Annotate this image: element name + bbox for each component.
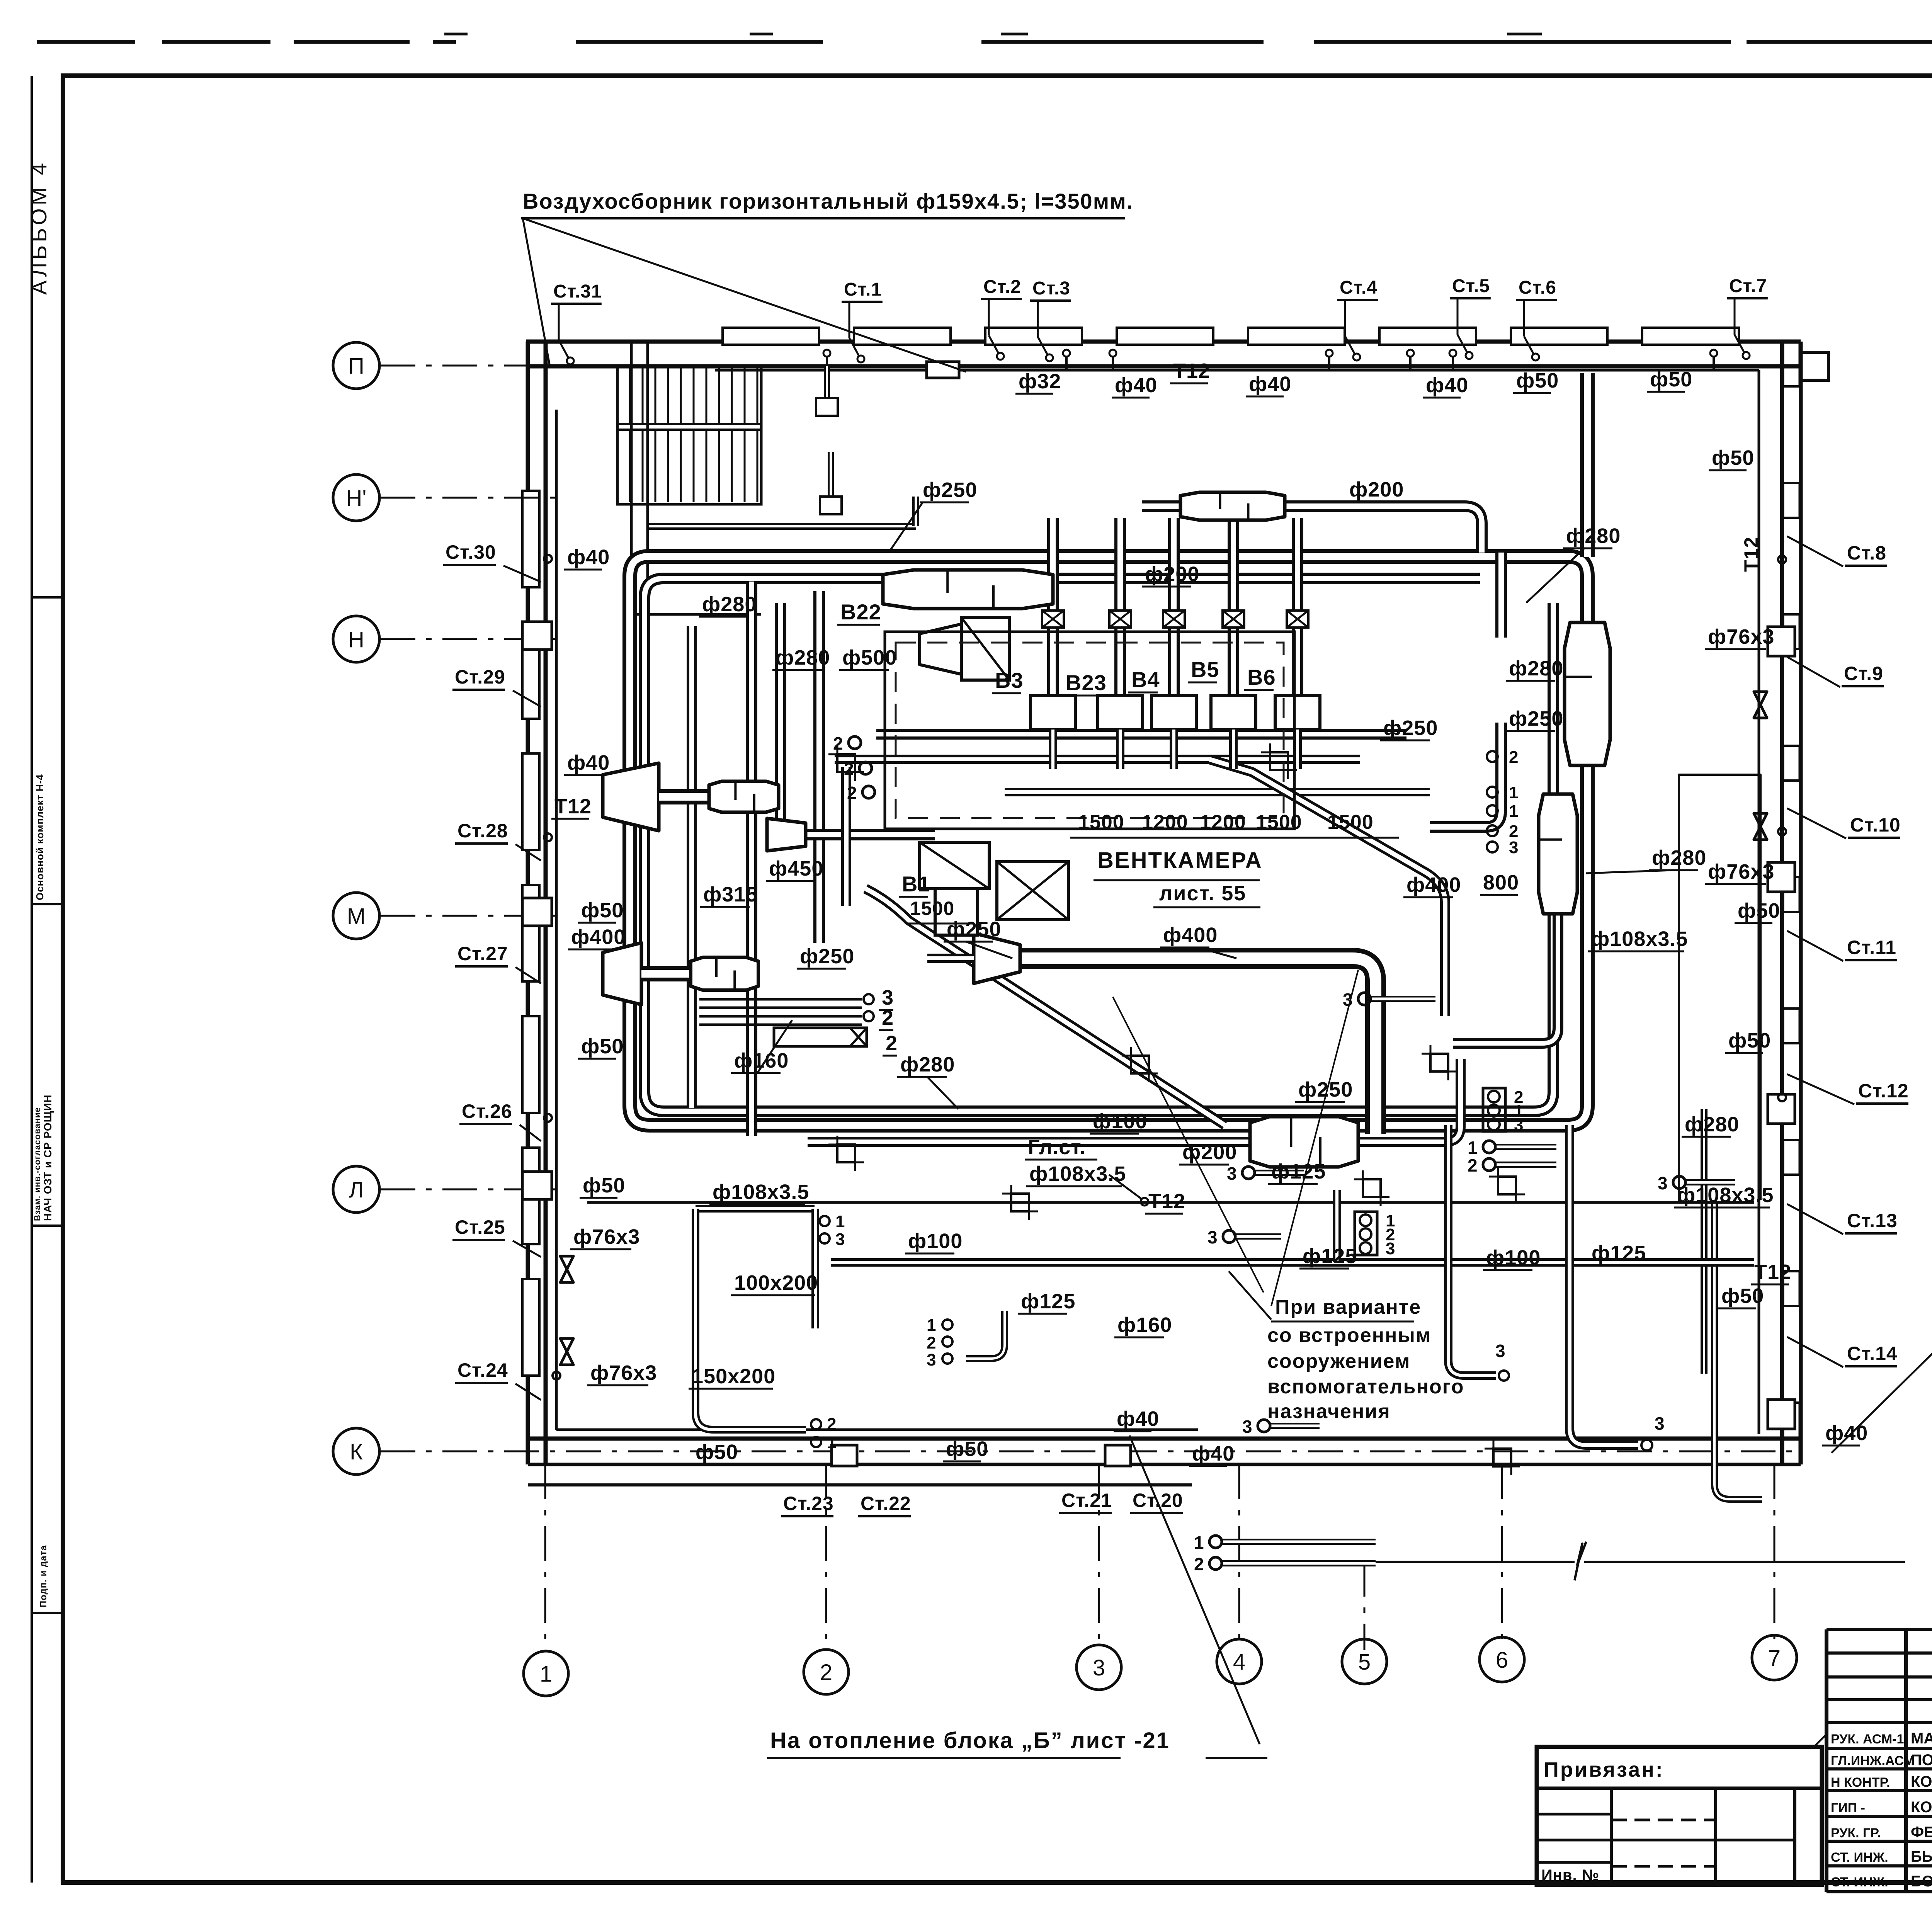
svg-text:ф50: ф50 (581, 1035, 624, 1058)
svg-text:ф76х3: ф76х3 (1708, 860, 1774, 883)
svg-text:1200: 1200 (1142, 811, 1188, 833)
duct (1049, 730, 1057, 769)
svg-text:ф76х3: ф76х3 (590, 1361, 657, 1384)
duct (1553, 796, 1563, 912)
svg-text:В5: В5 (1191, 657, 1219, 682)
duct (808, 1137, 1252, 1147)
svg-text:ф250: ф250 (947, 918, 1001, 941)
silencer (709, 781, 779, 812)
duct (1333, 1190, 1341, 1262)
duct (866, 889, 1225, 1125)
svg-text:Ст.23: Ст.23 (783, 1493, 834, 1514)
svg-text:Привязан:: Привязан: (1544, 1758, 1664, 1781)
svg-text:Ст.2: Ст.2 (983, 277, 1021, 297)
svg-text:Ст.22: Ст.22 (861, 1493, 911, 1514)
svg-text:1: 1 (540, 1662, 552, 1687)
duct (1430, 723, 1501, 827)
svg-text:ф280: ф280 (776, 646, 830, 669)
svg-text:Ст.5: Ст.5 (1452, 276, 1490, 296)
svg-text:РУК. ГР.: РУК. ГР. (1831, 1826, 1881, 1840)
svg-text:ф100: ф100 (1093, 1110, 1147, 1133)
svg-text:3: 3 (1514, 1116, 1524, 1134)
stairwell hatch (617, 367, 761, 504)
svg-text:1: 1 (1468, 1138, 1478, 1158)
svg-text:ф400: ф400 (1163, 923, 1218, 947)
duct (876, 729, 1406, 740)
svg-text:ф50: ф50 (1650, 368, 1692, 391)
duct (806, 829, 935, 840)
duct (1229, 730, 1238, 769)
svg-text:3: 3 (1495, 1341, 1506, 1361)
svg-text:3: 3 (1207, 1227, 1218, 1247)
svg-text:В6: В6 (1247, 665, 1276, 689)
duct (1480, 556, 1587, 625)
duct (1209, 759, 1445, 1016)
duct (696, 1209, 806, 1430)
svg-text:ф280: ф280 (1509, 657, 1563, 680)
duct (1292, 518, 1303, 696)
svg-text:ф250: ф250 (1383, 716, 1438, 740)
pipe stub (1685, 1179, 1735, 1185)
svg-text:Ст.14: Ст.14 (1847, 1343, 1898, 1364)
svg-text:ф160: ф160 (1117, 1313, 1172, 1337)
svg-text:ф280: ф280 (900, 1053, 955, 1076)
pipe stub (1370, 996, 1435, 1002)
svg-text:ГЛ.ИНЖ.АСМ: ГЛ.ИНЖ.АСМ (1831, 1753, 1915, 1768)
svg-text:3: 3 (1386, 1239, 1396, 1258)
axis circle 1 (524, 1651, 568, 1696)
duct (1142, 506, 1482, 553)
svg-text:Взам. инв.-согласование: Взам. инв.-согласование (32, 1107, 42, 1221)
svg-text:Т12: Т12 (1754, 1260, 1791, 1284)
svg-text:3: 3 (835, 1230, 845, 1249)
svg-text:3: 3 (1655, 1413, 1665, 1434)
duct (645, 578, 1553, 1111)
svg-text:2: 2 (882, 1006, 894, 1029)
svg-text:2: 2 (927, 1333, 937, 1352)
duct (775, 603, 786, 819)
svg-text:МАТОЯН: МАТОЯН (1911, 1730, 1932, 1747)
svg-text:ВЕНТКАМЕРА: ВЕНТКАМЕРА (1097, 848, 1263, 873)
column grid marker (837, 754, 855, 772)
column grid marker (1011, 1194, 1029, 1211)
svg-text:К: К (350, 1439, 363, 1464)
svg-text:П: П (348, 354, 364, 379)
silencer (691, 957, 759, 990)
svg-text:В1: В1 (902, 872, 930, 896)
svg-text:ф125: ф125 (1021, 1290, 1075, 1313)
svg-text:ф100: ф100 (1486, 1246, 1541, 1269)
svg-text:ф400: ф400 (571, 925, 626, 949)
duct (811, 1209, 819, 1328)
svg-text:ф40: ф40 (1192, 1442, 1235, 1465)
svg-text:2: 2 (1509, 748, 1519, 767)
duct (746, 582, 757, 1136)
duct (649, 523, 916, 530)
svg-text:БЫЧКОВА: БЫЧКОВА (1911, 1848, 1932, 1865)
svg-text:РУК. АСМ-1: РУК. АСМ-1 (1831, 1732, 1904, 1747)
pipe stub (1495, 1162, 1556, 1168)
svg-text:1: 1 (1509, 802, 1519, 821)
axis circle 3 (1077, 1645, 1121, 1690)
svg-text:Ст.7: Ст.7 (1729, 276, 1767, 296)
svg-text:Воздухосборник горизонтальн: Воздухосборник горизонтальный ф159х4.5; … (523, 189, 1133, 213)
duct (813, 591, 825, 943)
svg-text:ф40: ф40 (1117, 1407, 1159, 1430)
svg-text:Подп. и дата: Подп. и дата (38, 1545, 49, 1607)
svg-text:ф280: ф280 (1652, 846, 1706, 869)
svg-text:Т12: Т12 (1740, 536, 1762, 572)
svg-text:100х200: 100х200 (734, 1271, 818, 1294)
duct (1170, 730, 1178, 769)
svg-text:1500: 1500 (910, 898, 954, 919)
svg-text:3: 3 (1658, 1173, 1668, 1193)
axis circle Л (333, 1166, 379, 1213)
svg-text:ф76х3: ф76х3 (1708, 625, 1774, 648)
svg-text:ф280: ф280 (1566, 524, 1621, 548)
duct (1453, 912, 1558, 1043)
svg-text:На отопление блока „Б” лист: На отопление блока „Б” лист -21 (770, 1728, 1170, 1753)
svg-text:В4: В4 (1131, 667, 1160, 692)
svg-text:М: М (347, 904, 366, 929)
silencer (1250, 1117, 1358, 1167)
svg-text:ф100: ф100 (908, 1230, 963, 1253)
pipe stub (871, 789, 877, 795)
svg-text:3: 3 (882, 986, 894, 1009)
pipe stub (1235, 1233, 1281, 1240)
svg-text:3: 3 (1509, 838, 1519, 857)
svg-text:ф40: ф40 (1115, 374, 1157, 397)
svg-text:ф50: ф50 (1712, 446, 1754, 469)
svg-text:ф250: ф250 (923, 478, 977, 502)
svg-text:Ст.8: Ст.8 (1847, 542, 1886, 564)
valve (1754, 692, 1767, 718)
svg-text:1500: 1500 (1078, 811, 1124, 833)
privyazan table (1537, 1747, 1822, 1885)
axis circle 2 (804, 1650, 849, 1694)
svg-text:Н КОНТР.: Н КОНТР. (1831, 1775, 1890, 1790)
svg-text:Ст.30: Ст.30 (446, 541, 496, 563)
svg-text:ф50: ф50 (1516, 369, 1559, 392)
pipe stub (1221, 1539, 1376, 1545)
column grid marker (1493, 1449, 1511, 1466)
svg-text:ф40: ф40 (567, 546, 610, 569)
svg-text:ф125: ф125 (1271, 1160, 1326, 1183)
svg-text:Л: Л (349, 1177, 364, 1202)
svg-text:2: 2 (820, 1660, 832, 1685)
svg-text:Ст.27: Ст.27 (457, 943, 508, 964)
svg-text:ф108х3.5: ф108х3.5 (1677, 1184, 1774, 1207)
duct (1570, 1125, 1638, 1445)
svg-text:1: 1 (1194, 1532, 1205, 1553)
svg-text:ф500: ф500 (842, 646, 897, 669)
svg-text:Т12: Т12 (554, 795, 592, 818)
svg-text:со встроенным: со встроенным (1267, 1324, 1431, 1347)
axis circle К (333, 1428, 379, 1475)
axis circle 4 (1217, 1639, 1262, 1684)
building walls (526, 340, 1801, 344)
svg-text:Ст.12: Ст.12 (1858, 1080, 1909, 1102)
svg-text:ф50: ф50 (1721, 1284, 1764, 1308)
svg-text:ф200: ф200 (1145, 563, 1199, 586)
column grid marker (1363, 1179, 1381, 1197)
svg-text:Ст.9: Ст.9 (1844, 663, 1883, 684)
pipe stub (868, 765, 874, 771)
column grid marker (837, 1145, 855, 1162)
svg-text:ф280: ф280 (702, 593, 757, 616)
svg-text:ф32: ф32 (1019, 370, 1061, 393)
ventkamera dashed enclosure (885, 632, 1294, 829)
svg-text:2: 2 (833, 733, 844, 753)
svg-text:1: 1 (927, 1316, 937, 1335)
duct (1714, 1202, 1762, 1499)
svg-text:Ст.24: Ст.24 (457, 1359, 508, 1381)
svg-text:Ст.21: Ст.21 (1061, 1490, 1112, 1511)
svg-text:СТ. ИНЖ.: СТ. ИНЖ. (1831, 1875, 1888, 1889)
duct (1168, 518, 1180, 696)
duct (1047, 518, 1059, 696)
svg-text:КОЛЬЦОВА: КОЛЬЦОВА (1911, 1773, 1932, 1790)
svg-text:ПОДОЛЬСКИЙ: ПОДОЛЬСКИЙ (1911, 1751, 1932, 1769)
silencer (1180, 492, 1285, 520)
svg-text:ф250: ф250 (800, 945, 854, 968)
column grid marker (1131, 1056, 1149, 1073)
svg-text:ГИП -: ГИП - (1831, 1801, 1865, 1815)
svg-text:ф40: ф40 (1249, 372, 1291, 396)
duct (927, 954, 974, 963)
svg-text:ф50: ф50 (583, 1174, 625, 1197)
svg-text:ф450: ф450 (769, 857, 823, 880)
valve (1754, 813, 1767, 840)
svg-text:ФЕВРАЛЕВА: ФЕВРАЛЕВА (1911, 1824, 1932, 1841)
duct (966, 1311, 1005, 1359)
svg-text:Ст.25: Ст.25 (455, 1216, 505, 1238)
svg-text:Ст.4: Ст.4 (1340, 277, 1378, 298)
svg-text:лист. 55: лист. 55 (1159, 882, 1246, 905)
heating mains T12 (715, 369, 1759, 372)
svg-text:ф280: ф280 (1685, 1113, 1739, 1136)
svg-text:Ст.1: Ст.1 (844, 279, 882, 300)
duct (1228, 518, 1239, 696)
svg-text:2: 2 (1468, 1155, 1478, 1175)
svg-text:Ст.3: Ст.3 (1032, 278, 1070, 299)
svg-text:1: 1 (1509, 783, 1519, 802)
svg-text:вспомогательного: вспомогательного (1267, 1376, 1464, 1398)
pipe stub (1254, 1170, 1304, 1176)
svg-text:Инв. №: Инв. № (1541, 1867, 1599, 1884)
svg-text:ф200: ф200 (1182, 1141, 1237, 1164)
svg-text:Основной комплект Н-4: Основной комплект Н-4 (34, 774, 46, 900)
svg-text:В23: В23 (1066, 670, 1107, 695)
svg-text:ф315: ф315 (703, 883, 758, 906)
svg-text:В3: В3 (995, 668, 1024, 692)
svg-text:150х200: 150х200 (692, 1365, 776, 1388)
svg-text:НАЧ ОЗТ и СР РОЩИН: НАЧ ОЗТ и СР РОЩИН (42, 1094, 54, 1221)
duct (1495, 553, 1507, 638)
svg-text:6: 6 (1496, 1648, 1508, 1673)
axis circle Н (333, 616, 379, 662)
svg-text:1200: 1200 (1200, 811, 1246, 833)
silencer (1565, 622, 1610, 765)
svg-text:3: 3 (927, 1350, 937, 1369)
svg-text:ф76х3: ф76х3 (573, 1225, 640, 1248)
svg-text:ф40: ф40 (1825, 1422, 1868, 1445)
svg-text:Ст.31: Ст.31 (553, 281, 602, 302)
svg-text:2: 2 (844, 759, 855, 779)
svg-text:Ст.13: Ст.13 (1847, 1210, 1898, 1231)
axis circle 6 (1480, 1637, 1524, 1682)
svg-text:2: 2 (827, 1415, 837, 1434)
svg-text:Ст.29: Ст.29 (455, 666, 505, 688)
svg-text:сооружением: сооружением (1267, 1350, 1410, 1372)
pipe stub (857, 740, 863, 746)
svg-text:2: 2 (886, 1032, 898, 1055)
svg-text:2: 2 (1194, 1554, 1205, 1574)
duct (1448, 1125, 1496, 1376)
svg-text:Гл.ст.: Гл.ст. (1028, 1136, 1086, 1159)
svg-text:1: 1 (835, 1212, 845, 1231)
duct (1356, 1059, 1461, 1142)
duct (687, 626, 697, 1108)
svg-text:Т12: Т12 (1173, 359, 1210, 383)
svg-text:Ст.11: Ст.11 (1847, 937, 1896, 958)
svg-text:Ст.10: Ст.10 (1850, 814, 1901, 836)
svg-text:назначения: назначения (1267, 1400, 1391, 1423)
column grid marker (1498, 1177, 1516, 1194)
duct (841, 767, 851, 906)
svg-text:ф50: ф50 (946, 1437, 988, 1461)
duct (831, 1258, 1754, 1267)
svg-text:7: 7 (1768, 1646, 1781, 1671)
svg-text:Ст.6: Ст.6 (1519, 277, 1556, 298)
scan edge artifacts (37, 40, 135, 44)
svg-text:ф108х3.5: ф108х3.5 (1591, 927, 1688, 951)
svg-text:3: 3 (1093, 1655, 1105, 1680)
duct (1114, 518, 1126, 696)
axis circle М (333, 893, 379, 939)
column grid marker (1270, 752, 1288, 770)
pipe stub (1495, 1144, 1556, 1150)
duct (1293, 730, 1302, 769)
svg-text:Н: Н (348, 627, 364, 652)
svg-text:1500: 1500 (1327, 811, 1374, 833)
duct (659, 789, 711, 804)
silencer (1539, 794, 1577, 914)
svg-text:КОЛЬЦОВА: КОЛЬЦОВА (1911, 1799, 1932, 1816)
svg-text:2: 2 (847, 783, 858, 803)
svg-text:ф400: ф400 (1406, 873, 1461, 896)
svg-text:Т12: Т12 (1148, 1190, 1185, 1213)
pipe stub (1269, 1423, 1320, 1429)
duct (835, 755, 1360, 764)
svg-text:ф50: ф50 (581, 899, 624, 922)
svg-text:ф160: ф160 (734, 1049, 789, 1072)
svg-text:АЛЬБОМ 4: АЛЬБОМ 4 (27, 160, 51, 295)
svg-text:Н': Н' (346, 486, 367, 511)
svg-text:Ст.26: Ст.26 (462, 1100, 512, 1122)
svg-text:3: 3 (1242, 1417, 1253, 1437)
column grid marker (1430, 1054, 1448, 1071)
svg-text:БОЯРСКАЯ: БОЯРСКАЯ (1911, 1873, 1932, 1890)
svg-text:Ст.28: Ст.28 (457, 820, 508, 842)
duct (1701, 1109, 1708, 1374)
svg-text:ф50: ф50 (696, 1440, 738, 1464)
svg-text:При варианте: При варианте (1275, 1296, 1421, 1318)
svg-text:ф125: ф125 (1303, 1245, 1357, 1268)
svg-text:ф125: ф125 (1592, 1242, 1646, 1265)
axis circle П (333, 342, 379, 389)
svg-text:1: 1 (827, 1433, 837, 1452)
svg-text:СТ. ИНЖ.: СТ. ИНЖ. (1831, 1850, 1888, 1865)
svg-text:ф250: ф250 (1509, 707, 1563, 730)
svg-text:ф200: ф200 (1349, 478, 1404, 501)
axis circle Н' (333, 474, 379, 521)
svg-text:ф108х3.5: ф108х3.5 (1029, 1162, 1126, 1185)
svg-text:3: 3 (1227, 1163, 1238, 1184)
svg-text:ф40: ф40 (567, 751, 610, 774)
svg-text:В22: В22 (840, 600, 881, 624)
valve (560, 1256, 573, 1282)
axis circle 5 (1342, 1639, 1387, 1684)
duct (1005, 788, 1430, 796)
duct (1116, 730, 1124, 769)
duct (1020, 958, 1376, 1134)
svg-text:800: 800 (1483, 871, 1519, 894)
svg-text:ф50: ф50 (1728, 1029, 1771, 1052)
svg-text:4: 4 (1233, 1650, 1245, 1675)
axis circle 7 (1752, 1635, 1797, 1680)
silencer (883, 570, 1053, 609)
svg-text:ф108х3.5: ф108х3.5 (713, 1180, 809, 1204)
svg-text:5: 5 (1358, 1650, 1371, 1675)
svg-text:ф50: ф50 (1738, 899, 1780, 922)
title block (1825, 1629, 1828, 1892)
duct (912, 497, 919, 526)
valve (560, 1338, 573, 1365)
svg-text:1500: 1500 (1256, 811, 1302, 833)
duct (696, 1205, 815, 1213)
duct (641, 966, 692, 981)
duct (1580, 373, 1595, 557)
svg-text:ф40: ф40 (1426, 374, 1468, 397)
duct (630, 556, 1587, 1125)
pipe stub (1221, 1560, 1376, 1566)
